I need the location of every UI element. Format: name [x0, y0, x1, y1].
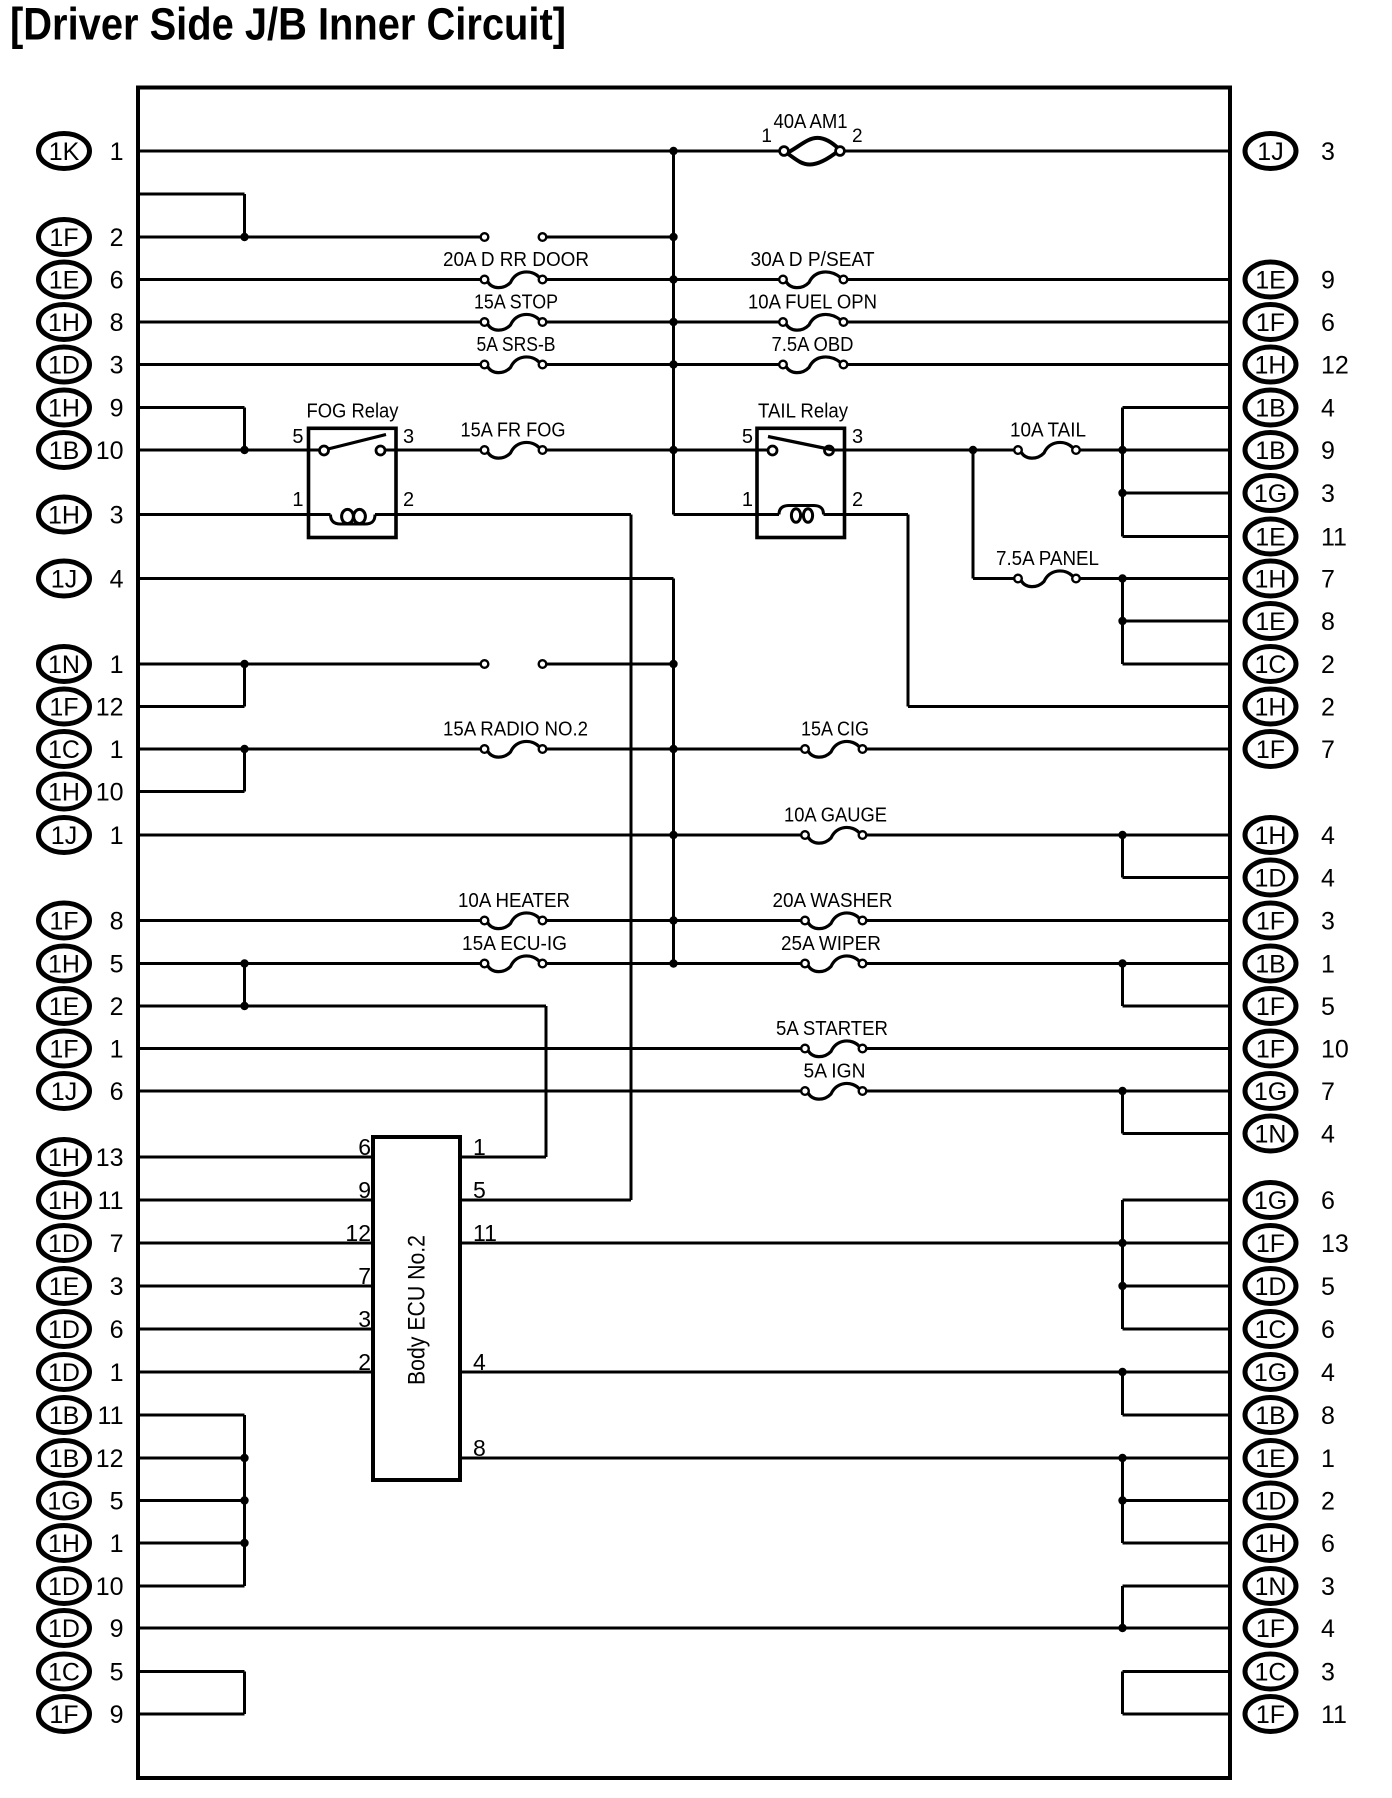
- wire node x908 to right border 1H-2: [908, 705, 1230, 708]
- right bus vertical rows 1091-1133: [1121, 1091, 1124, 1134]
- svg-text:1F: 1F: [49, 908, 78, 936]
- TAIL relay pin 3 label: [852, 426, 863, 448]
- svg-text:2: 2: [358, 1349, 371, 1375]
- right bus vertical rows 963-1006: [1121, 964, 1124, 1007]
- wire 1H-10 to node x244: [138, 790, 245, 793]
- wire 1F-9 to node x244: [138, 1713, 245, 1716]
- label 10A FUEL OPN: [748, 292, 877, 314]
- wire node x244 rows 963-1006: [243, 964, 246, 1007]
- connector 1H pin 8 (left): [39, 305, 124, 340]
- TAIL relay U3 box: [757, 428, 845, 537]
- junction 1B-12/jog: [240, 1454, 248, 1462]
- svg-text:1F: 1F: [1256, 908, 1285, 936]
- svg-text:3: 3: [852, 426, 863, 448]
- svg-text:9: 9: [110, 1701, 124, 1729]
- ECU pin 3 label: [358, 1306, 371, 1332]
- connector 1G pin 4 (right): [1245, 1355, 1335, 1390]
- connector 1F pin 11 (right): [1245, 1697, 1347, 1732]
- fuse 15A STOP: [481, 314, 547, 330]
- svg-text:7: 7: [110, 1230, 124, 1258]
- wire right bus top corner to 1B-4: [1123, 406, 1231, 409]
- wire 1H-9 down to 1B-10 row: [243, 408, 246, 451]
- svg-text:1E: 1E: [1255, 608, 1286, 636]
- wire 1J-4 to bus A: [138, 577, 674, 580]
- connector 1C pin 1 (left): [39, 732, 124, 767]
- ECU pin 6 label: [358, 1134, 371, 1160]
- junction 1E-8/busR: [1118, 617, 1126, 625]
- junction 1G-5/jog: [240, 1496, 248, 1504]
- svg-text:1J: 1J: [1257, 138, 1283, 166]
- connector 1G pin 5 (left): [39, 1483, 124, 1518]
- svg-text:1B: 1B: [49, 1402, 80, 1430]
- svg-text:1H: 1H: [1255, 566, 1287, 594]
- label 20A D RR DOOR: [443, 249, 589, 271]
- connector 1C pin 6 (right): [1245, 1312, 1335, 1347]
- bus A vertical x674 rows 578-963: [672, 579, 675, 964]
- svg-text:8: 8: [473, 1435, 486, 1461]
- svg-text:15A CIG: 15A CIG: [801, 719, 869, 741]
- right bus vertical rows 835-878: [1121, 835, 1124, 878]
- FOG relay pin 3 terminal: [376, 446, 385, 455]
- svg-text:40A AM1: 40A AM1: [774, 111, 848, 133]
- connector 1E pin 2 (left): [39, 989, 124, 1024]
- connector 1D pin 9 (left): [39, 1611, 124, 1646]
- svg-text:1D: 1D: [48, 1316, 80, 1344]
- svg-text:13: 13: [1321, 1230, 1349, 1258]
- connector 1F pin 9 (left): [39, 1697, 124, 1732]
- junction 1F-4/busR: [1118, 1624, 1126, 1632]
- svg-text:7: 7: [358, 1263, 371, 1289]
- connector 1G pin 7 (right): [1245, 1074, 1335, 1109]
- right bus vertical rows 1200-1329: [1121, 1200, 1124, 1329]
- wire fuse HEATER to busA: [547, 919, 802, 922]
- wire 1D-10 to node x244: [138, 1585, 245, 1588]
- svg-text:1B: 1B: [1255, 1402, 1286, 1430]
- fuse 30A D P/SEAT: [779, 272, 847, 288]
- TAIL relay pin 5 label: [742, 426, 753, 448]
- junction 1H-4/busR: [1118, 831, 1126, 839]
- fuse 15A ECU-IG: [481, 956, 547, 972]
- svg-text:2: 2: [110, 993, 124, 1021]
- label 5A IGN: [804, 1061, 866, 1083]
- svg-text:1F: 1F: [1256, 1036, 1285, 1064]
- svg-text:13: 13: [96, 1144, 124, 1172]
- bus A corner to TAIL relay pin 1: [674, 513, 780, 516]
- ECU pin 1 label: [473, 1134, 486, 1160]
- wire 1E-2 to node x546: [138, 1005, 546, 1008]
- wire busR to 1G-6: [1123, 1199, 1231, 1202]
- connector 1B pin 9 (right): [1245, 433, 1335, 468]
- svg-text:10A HEATER: 10A HEATER: [458, 890, 570, 912]
- svg-text:1G: 1G: [1254, 1359, 1287, 1387]
- wire fuse FUEL OPN to right border: [848, 321, 1231, 324]
- connector 1K pin 1 (left): [39, 134, 124, 169]
- wire fuse STOP to busA: [547, 321, 780, 324]
- wire node x973 down to PANEL row: [972, 450, 975, 579]
- junction 1C-1/jog: [240, 745, 248, 753]
- connector 1F pin 7 (right): [1245, 732, 1335, 767]
- connector 1F pin 6 (right): [1245, 305, 1335, 340]
- connector 1C pin 2 (right): [1245, 647, 1335, 682]
- svg-text:20A WASHER: 20A WASHER: [773, 890, 893, 912]
- FOG relay switch blade: [328, 435, 386, 450]
- wire 1J-1 to fuse GAUGE: [138, 834, 801, 837]
- connector 1F pin 5 (right): [1245, 989, 1335, 1024]
- ECU pin 11 label: [473, 1220, 497, 1246]
- svg-text:1D: 1D: [48, 1230, 80, 1258]
- svg-text:1E: 1E: [1255, 1445, 1286, 1473]
- wire fuse ECU-IG to busA: [547, 962, 802, 965]
- wire busR to 1B-8: [1123, 1414, 1231, 1417]
- wire left to fuse STOP: [138, 321, 481, 324]
- wire 1C-1 to fuse RADIO NO.2: [138, 748, 481, 751]
- wire busR to 1H-6: [1123, 1542, 1231, 1545]
- wire busR to 1C-2: [1123, 663, 1231, 666]
- wire 1H-1 to node x244: [138, 1542, 245, 1545]
- connector 1H pin 12 (right): [1245, 347, 1349, 382]
- junction 1H-5/busA: [669, 959, 677, 967]
- svg-text:3: 3: [358, 1306, 371, 1332]
- svg-text:9: 9: [358, 1177, 371, 1203]
- fuse 15A RADIO NO.2: [481, 741, 547, 757]
- svg-text:5: 5: [1321, 993, 1335, 1021]
- svg-text:1C: 1C: [48, 1659, 80, 1687]
- junction 1H-7/busR: [1118, 574, 1126, 582]
- svg-text:6: 6: [1321, 1530, 1335, 1558]
- fuse 20A D RR DOOR: [481, 272, 547, 288]
- fuse 10A GAUGE: [801, 827, 866, 843]
- svg-text:1E: 1E: [49, 267, 80, 295]
- wire node x244 rows 1415-1586: [243, 1415, 246, 1586]
- svg-text:6: 6: [1321, 1187, 1335, 1215]
- svg-text:1F: 1F: [1256, 309, 1285, 337]
- connector 1D pin 4 (right): [1245, 860, 1335, 895]
- wire fuse FR FOG to busA: [547, 449, 769, 452]
- connector 1N pin 1 (left): [39, 647, 124, 682]
- connector 1B pin 12 (left): [39, 1441, 124, 1476]
- connector 1B pin 10 (left): [39, 433, 124, 468]
- fuse 20A WASHER: [801, 913, 866, 929]
- svg-text:5A IGN: 5A IGN: [804, 1061, 866, 1083]
- wire busR to 1N-4: [1123, 1132, 1231, 1135]
- connector 1N pin 4 (right): [1245, 1116, 1335, 1151]
- connector 1B pin 4 (right): [1245, 390, 1335, 425]
- svg-text:7: 7: [1321, 1078, 1335, 1106]
- wire busR to 1G-3: [1123, 492, 1231, 495]
- junction node x973 on 1B-10 row: [969, 446, 977, 454]
- connector 1B pin 8 (right): [1245, 1398, 1335, 1433]
- fuse 7.5A OBD: [779, 357, 847, 373]
- svg-text:1: 1: [1321, 951, 1335, 979]
- svg-text:5: 5: [473, 1177, 486, 1203]
- wire ECU pin 5 to bus B: [460, 1199, 631, 1202]
- junction 1B-10/jog: [240, 446, 248, 454]
- svg-text:10A TAIL: 10A TAIL: [1010, 420, 1086, 442]
- svg-text:6: 6: [110, 1078, 124, 1106]
- pin 2 of fuse AM1: [852, 126, 863, 147]
- svg-text:8: 8: [110, 309, 124, 337]
- svg-text:5: 5: [110, 951, 124, 979]
- connector 1F pin 12 (left): [39, 689, 124, 724]
- junction 1G-7/busR: [1118, 1087, 1126, 1095]
- FOG relay coil: [331, 509, 376, 524]
- svg-text:1F: 1F: [49, 1701, 78, 1729]
- svg-text:1C: 1C: [1255, 1316, 1287, 1344]
- wire 1E-3 to ECU pin 7: [138, 1285, 373, 1288]
- svg-text:1H: 1H: [48, 502, 80, 530]
- connector 1J pin 4 (left): [39, 561, 124, 596]
- svg-text:10A GAUGE: 10A GAUGE: [784, 805, 887, 827]
- connector 1C pin 3 (right): [1245, 1654, 1335, 1689]
- svg-text:3: 3: [110, 352, 124, 380]
- svg-text:2: 2: [1321, 1488, 1335, 1516]
- label 20A WASHER: [773, 890, 893, 912]
- junction 1N-1/jog: [240, 660, 248, 668]
- ECU pin 9 label: [358, 1177, 371, 1203]
- svg-text:1D: 1D: [1255, 865, 1287, 893]
- wire node x546 down to ECU pin 1: [545, 1006, 548, 1157]
- wire fuse GAUGE to right border 1H-4: [867, 834, 1231, 837]
- svg-text:15A FR FOG: 15A FR FOG: [461, 420, 566, 442]
- svg-text:6: 6: [1321, 1316, 1335, 1344]
- svg-text:1E: 1E: [1255, 267, 1286, 295]
- svg-text:1: 1: [110, 1530, 124, 1558]
- wire 1C-5 to node x244: [138, 1670, 245, 1673]
- right bus vertical rows 407-536: [1121, 408, 1124, 537]
- svg-text:1: 1: [110, 1359, 124, 1387]
- wire 1G-5 to node x244: [138, 1499, 245, 1502]
- svg-text:4: 4: [1321, 1121, 1335, 1149]
- title: [10, 0, 566, 50]
- open terminal pair on 1N-1 row: [481, 660, 547, 668]
- label 15A CIG: [801, 719, 869, 741]
- junction 1H-5/jog: [240, 959, 248, 967]
- svg-text:10A FUEL OPN: 10A FUEL OPN: [748, 292, 877, 314]
- svg-text:10: 10: [96, 437, 124, 465]
- connector 1D pin 1 (left): [39, 1355, 124, 1390]
- svg-text:6: 6: [110, 267, 124, 295]
- svg-text:2: 2: [1321, 651, 1335, 679]
- connector 1N pin 3 (right): [1245, 1569, 1335, 1604]
- wire open terminal to busA row664: [547, 663, 674, 666]
- svg-text:3: 3: [110, 1273, 124, 1301]
- right bus vertical rows 1671-1714: [1121, 1672, 1124, 1715]
- svg-text:1F: 1F: [1256, 1615, 1285, 1643]
- fuse 5A SRS-B: [481, 357, 547, 373]
- svg-text:15A ECU-IG: 15A ECU-IG: [462, 933, 567, 955]
- right bus vertical rows 1458-1543: [1121, 1458, 1124, 1543]
- svg-text:1C: 1C: [1255, 1659, 1287, 1687]
- ECU pin 2 label: [358, 1349, 371, 1375]
- wire 1K-1 to fuse AM1: [138, 150, 780, 153]
- svg-text:12: 12: [96, 1445, 124, 1473]
- svg-text:6: 6: [110, 1316, 124, 1344]
- svg-text:1C: 1C: [1255, 651, 1287, 679]
- svg-text:2: 2: [403, 489, 414, 511]
- svg-text:10: 10: [96, 1573, 124, 1601]
- svg-text:5: 5: [110, 1659, 124, 1687]
- svg-text:1K: 1K: [49, 138, 80, 166]
- wire 1H-13 to ECU pin 6: [138, 1156, 373, 1159]
- label 10A TAIL: [1010, 420, 1086, 442]
- connector 1D pin 2 (right): [1245, 1483, 1335, 1518]
- wire fuse WASHER to right border 1F-3: [867, 919, 1231, 922]
- wire fuse AM1 to 1J-3: [844, 150, 1230, 153]
- wire TAIL relay pin 3 to fuse TAIL: [834, 449, 1015, 452]
- junction 1H-1/jog: [240, 1539, 248, 1547]
- svg-text:1H: 1H: [48, 779, 80, 807]
- svg-text:2: 2: [110, 224, 124, 252]
- connector 1H pin 13 (left): [39, 1140, 124, 1175]
- wire ECU pin 11 to right border 1F-13: [460, 1242, 1230, 1245]
- wire busR to 1F-11: [1123, 1713, 1231, 1716]
- junction 1F-2/jog: [240, 233, 248, 241]
- svg-text:1B: 1B: [49, 437, 80, 465]
- svg-text:1B: 1B: [1255, 395, 1286, 423]
- svg-text:1F: 1F: [1256, 1230, 1285, 1258]
- connector 1J pin 1 (left): [39, 818, 124, 853]
- svg-text:1C: 1C: [48, 736, 80, 764]
- label 10A GAUGE: [784, 805, 887, 827]
- svg-text:1J: 1J: [51, 1078, 77, 1106]
- connector 1D pin 5 (right): [1245, 1269, 1335, 1304]
- wire 1N-1 to open terminal: [138, 663, 481, 666]
- connector 1H pin 4 (right): [1245, 818, 1335, 853]
- svg-text:3: 3: [1321, 480, 1335, 508]
- svg-text:1D: 1D: [48, 352, 80, 380]
- svg-text:4: 4: [473, 1349, 486, 1375]
- wire fuse D RR DOOR to busA: [547, 278, 780, 281]
- svg-text:7: 7: [1321, 736, 1335, 764]
- wire 1F-12 to node x244: [138, 705, 245, 708]
- connector 1H pin 5 (left): [39, 946, 124, 981]
- wire node x973 to fuse PANEL: [973, 577, 1014, 580]
- right bus vertical rows 1586-1628: [1121, 1586, 1124, 1628]
- junction busA y364: [669, 360, 677, 368]
- wire 1J-6 to fuse IGN: [138, 1090, 801, 1093]
- svg-text:1E: 1E: [49, 1273, 80, 1301]
- wire 1H-11 to ECU pin 9: [138, 1199, 373, 1202]
- svg-text:2: 2: [852, 489, 863, 511]
- label Body ECU No.2: [404, 1235, 431, 1385]
- junction busA y279: [669, 275, 677, 283]
- bus A vertical x674 rows 151-514: [672, 151, 675, 515]
- label FOG Relay: [307, 401, 399, 423]
- ECU pin 5 label: [473, 1177, 486, 1203]
- svg-text:5: 5: [110, 1488, 124, 1516]
- border frame of J/B inner circuit: [138, 88, 1230, 1779]
- svg-text:10: 10: [1321, 1036, 1349, 1064]
- svg-text:[Driver Side J/B Inner Circuit: [Driver Side J/B Inner Circuit]: [10, 0, 566, 50]
- svg-text:8: 8: [110, 908, 124, 936]
- ECU pin 4 label: [473, 1349, 486, 1375]
- junction 1D-2/busR: [1118, 1496, 1126, 1504]
- svg-text:1B: 1B: [1255, 951, 1286, 979]
- svg-text:1H: 1H: [1255, 822, 1287, 850]
- svg-text:1F: 1F: [49, 694, 78, 722]
- svg-text:6: 6: [358, 1134, 371, 1160]
- svg-text:3: 3: [110, 502, 124, 530]
- right bus vertical rows 578-664: [1121, 579, 1124, 665]
- svg-text:4: 4: [1321, 1615, 1335, 1643]
- wire 1D-6 to ECU pin 3: [138, 1328, 373, 1331]
- wire 1F-1 to fuse STARTER: [138, 1047, 801, 1050]
- svg-text:5A SRS-B: 5A SRS-B: [477, 334, 556, 356]
- wire 1D-7 to ECU pin 12: [138, 1242, 373, 1245]
- junction 1G-3/busR: [1118, 489, 1126, 497]
- svg-text:1B: 1B: [1255, 437, 1286, 465]
- wire node x244 rows 664-706: [243, 664, 246, 707]
- junction 1D-5/busR: [1118, 1282, 1126, 1290]
- connector 1D pin 3 (left): [39, 347, 124, 382]
- svg-text:1D: 1D: [48, 1615, 80, 1643]
- svg-text:20A D RR DOOR: 20A D RR DOOR: [443, 249, 589, 271]
- svg-text:1D: 1D: [1255, 1488, 1287, 1516]
- wire fuse SRS-B to busA: [547, 363, 780, 366]
- junction 1C-1/busA: [669, 745, 677, 753]
- svg-text:15A STOP: 15A STOP: [474, 292, 558, 314]
- wire FOG relay pin 2 to bus B: [375, 513, 631, 516]
- fuse 5A IGN: [801, 1083, 866, 1099]
- svg-text:3: 3: [1321, 1659, 1335, 1687]
- svg-text:1H: 1H: [1255, 694, 1287, 722]
- label 7.5A OBD: [772, 334, 854, 356]
- svg-text:11: 11: [98, 1187, 124, 1215]
- svg-text:1: 1: [110, 1036, 124, 1064]
- wire fuse RADIO to busA: [547, 748, 802, 751]
- junction 1G-4/busR: [1118, 1368, 1126, 1376]
- wire 1H-3 to FOG relay coil: [138, 513, 331, 516]
- label TAIL Relay: [758, 401, 848, 423]
- wire left to fuse D RR DOOR: [138, 278, 481, 281]
- svg-text:1N: 1N: [1255, 1573, 1287, 1601]
- svg-text:3: 3: [1321, 908, 1335, 936]
- wire busR to 1C-6: [1123, 1328, 1231, 1331]
- svg-text:1: 1: [473, 1134, 486, 1160]
- connector 1H pin 9 (left): [39, 390, 124, 425]
- wire 1D-1 to ECU pin 2: [138, 1371, 373, 1374]
- svg-text:1F: 1F: [49, 1036, 78, 1064]
- fuse 10A TAIL: [1014, 442, 1080, 458]
- wire open terminal to busA: [547, 236, 674, 239]
- svg-text:4: 4: [1321, 865, 1335, 893]
- connector 1E pin 6 (left): [39, 262, 124, 297]
- svg-text:1H: 1H: [48, 395, 80, 423]
- wire 1D-9 to right border 1F-4: [138, 1627, 1230, 1630]
- connector 1E pin 3 (left): [39, 1269, 124, 1304]
- label 15A STOP: [474, 292, 558, 314]
- svg-text:1H: 1H: [48, 1144, 80, 1172]
- connector 1F pin 13 (right): [1245, 1226, 1349, 1261]
- Body ECU No.2 box: [373, 1137, 460, 1480]
- connector 1E pin 9 (right): [1245, 262, 1335, 297]
- wire fuse STARTER to right border 1F-10: [867, 1047, 1231, 1050]
- junction 1E-2/jog: [240, 1002, 248, 1010]
- svg-text:6: 6: [1321, 309, 1335, 337]
- label 7.5A PANEL: [996, 548, 1099, 570]
- wire 1F-8 to fuse HEATER: [138, 919, 481, 922]
- junction 1B-10/busA: [669, 446, 677, 454]
- fuse 10A FUEL OPN: [779, 314, 847, 330]
- FOG relay pin 3 label: [403, 426, 414, 448]
- connector 1D pin 10 (left): [39, 1569, 124, 1604]
- TAIL relay pin 3 terminal: [825, 446, 834, 455]
- pin 1 of fuse AM1: [761, 126, 772, 147]
- connector 1G pin 3 (right): [1245, 476, 1335, 511]
- svg-text:3: 3: [1321, 138, 1335, 166]
- connector 1H pin 1 (left): [39, 1526, 124, 1561]
- svg-text:4: 4: [1321, 395, 1335, 423]
